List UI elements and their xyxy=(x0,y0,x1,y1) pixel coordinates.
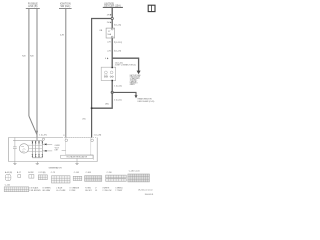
svg-text:P: PINK: P: PINK xyxy=(69,190,76,192)
arrowhead down small xyxy=(135,95,138,98)
svg-text:J/B: J/B xyxy=(99,30,103,32)
svg-text:C-142: C-142 xyxy=(5,184,10,186)
svg-text:W:: W: xyxy=(95,190,98,192)
field brushes xyxy=(13,138,17,162)
svg-text:09-4 De-icer circuit: 09-4 De-icer circuit xyxy=(138,189,153,192)
svg-text:JOINT CONNECTOR (5): JOINT CONNECTOR (5) xyxy=(115,65,136,67)
connector C-110 shape xyxy=(106,175,127,181)
ground rectifier xyxy=(36,162,39,165)
wire pair left (battery cable) xyxy=(29,9,37,138)
svg-text:SW (IG1): SW (IG1) xyxy=(60,5,70,8)
connector B-17 shape xyxy=(18,175,21,178)
junction C xyxy=(111,91,113,93)
svg-text:LG: LT-GRN: LG: LT-GRN xyxy=(56,190,66,192)
svg-text:(W): (W) xyxy=(105,103,109,105)
connector B-28X shape xyxy=(29,175,34,179)
svg-text:GR: GRAY: GR: GRAY xyxy=(42,189,51,192)
ignition switch header label xyxy=(60,3,71,8)
junction A xyxy=(111,17,113,19)
arrowhead down xyxy=(137,71,141,75)
junction dots on main wire xyxy=(112,67,113,68)
regulator inner enclosure xyxy=(66,138,91,155)
stator winding xyxy=(19,144,28,153)
bottom wide connector shape xyxy=(4,187,29,192)
rectifier rails xyxy=(13,141,42,158)
fuse F17 box xyxy=(106,28,115,38)
main power wire xyxy=(111,20,113,93)
fusible link bus bar xyxy=(26,7,40,10)
terminal S xyxy=(91,139,94,142)
destination text block battery/ignition xyxy=(130,74,142,86)
connector C-23 shape xyxy=(38,175,47,180)
regulator S wire xyxy=(90,155,93,160)
regulator terminal note xyxy=(55,145,61,151)
footer note xyxy=(138,189,153,196)
svg-text:C-73: C-73 xyxy=(51,172,55,174)
svg-text:VOLTAGE REGULATOR: VOLTAGE REGULATOR xyxy=(66,156,87,159)
svg-text:1 (C-05): 1 (C-05) xyxy=(114,85,122,87)
svg-text:2H: 2H xyxy=(107,15,110,17)
svg-text:4-W: 4-W xyxy=(60,35,64,37)
svg-text:2004-05-31: 2004-05-31 xyxy=(145,194,154,196)
link wire to regulator xyxy=(62,149,66,151)
svg-text:DEFOGGER (C-05): DEFOGGER (C-05) xyxy=(138,101,155,103)
page reference icon xyxy=(148,5,155,11)
junction B dot xyxy=(91,107,93,109)
B wire into rectifier xyxy=(36,138,38,141)
svg-text:C-110: C-110 xyxy=(107,172,112,174)
svg-text:10A: 10A xyxy=(107,33,111,36)
contact element xyxy=(110,71,113,74)
connector ref C-05 xyxy=(114,24,121,27)
voltage regulator box xyxy=(61,155,93,159)
svg-text:B-17: B-17 xyxy=(17,172,21,174)
svg-text:R-B: R-B xyxy=(22,56,26,58)
main wire corner to x91 xyxy=(92,92,113,108)
main power wire top xyxy=(111,8,113,19)
connector ref C-12 xyxy=(114,41,122,44)
svg-text:Y: YELLOW: Y: YELLOW xyxy=(102,190,111,192)
connector C-108 shape xyxy=(85,176,102,182)
ground generator field xyxy=(13,162,16,165)
fusible link header label xyxy=(28,3,38,8)
rectifier diodes top row xyxy=(32,141,43,143)
svg-text:C-105: C-105 xyxy=(74,172,79,174)
connector A-05 shape xyxy=(5,174,11,180)
coil element xyxy=(105,71,108,74)
exciter diode lower xyxy=(42,150,52,152)
branch to rear window defogger xyxy=(113,92,136,95)
svg-text:3: 3 xyxy=(63,135,65,137)
svg-text:1 (C-28): 1 (C-28) xyxy=(94,134,102,136)
svg-text:C-23 (B): C-23 (B) xyxy=(38,172,46,174)
joint connector note xyxy=(115,62,136,66)
svg-text:R-B: R-B xyxy=(30,56,34,58)
svg-text:B-28X: B-28X xyxy=(28,172,34,174)
pin label 2H lower xyxy=(107,22,112,25)
terminal B plus xyxy=(42,138,44,140)
connector C-105 shape xyxy=(73,176,82,180)
thick branch to battery arrow xyxy=(112,58,138,71)
connector ref C-29 xyxy=(114,50,121,53)
svg-text:GENERATOR: GENERATOR xyxy=(49,166,62,169)
svg-text:2 BR: BROWN: 2 BR: BROWN xyxy=(29,190,41,192)
pin label 4 at branch xyxy=(105,58,108,61)
ground regulator xyxy=(75,158,78,164)
svg-text:4: 4 xyxy=(105,58,107,60)
rectifier diodes bottom row xyxy=(32,155,43,157)
pin label 2H upper xyxy=(107,14,112,17)
generator box xyxy=(9,138,98,162)
stator phase wires xyxy=(28,145,43,152)
svg-text:C-108: C-108 xyxy=(86,172,91,174)
svg-text:2H: 2H xyxy=(107,22,110,24)
junction block header label xyxy=(104,2,121,7)
terminal L xyxy=(65,139,68,142)
svg-text:(C-05): (C-05) xyxy=(115,25,121,27)
svg-text:SB: SKY: SB: SKY xyxy=(85,190,92,192)
connector C-140 shape xyxy=(128,174,149,182)
svg-text:C-140 C-141: C-140 C-141 xyxy=(129,171,140,173)
svg-text:(R): (R) xyxy=(83,119,86,121)
junction block bus bar xyxy=(103,7,123,8)
branch wire to generator S line xyxy=(92,19,113,138)
wire color legend xyxy=(29,187,123,192)
svg-text:T: TWIST: T: TWIST xyxy=(115,190,122,192)
svg-text:(C-29): (C-29) xyxy=(115,51,121,53)
wire L xyxy=(65,9,67,138)
exciter diode upper xyxy=(42,143,52,145)
ignition bus bar xyxy=(59,7,72,10)
svg-text:LINK (B): LINK (B) xyxy=(28,5,37,8)
svg-text:A-05 (B): A-05 (B) xyxy=(5,171,12,174)
svg-text:1 (C-37): 1 (C-37) xyxy=(39,135,47,137)
svg-text:2-R: 2-R xyxy=(107,50,111,52)
connector C-73 shape xyxy=(52,176,71,183)
dedicated fuse unit box xyxy=(101,67,116,81)
connector ref below relay xyxy=(114,85,122,87)
svg-text:2-R: 2-R xyxy=(107,42,111,44)
rear window defogger note xyxy=(138,98,155,103)
svg-text:1 (C-05): 1 (C-05) xyxy=(114,100,122,102)
svg-text:(C-112): (C-112) xyxy=(115,42,122,44)
svg-text:DET: DET xyxy=(55,150,59,152)
cable arrow tip xyxy=(36,131,38,135)
